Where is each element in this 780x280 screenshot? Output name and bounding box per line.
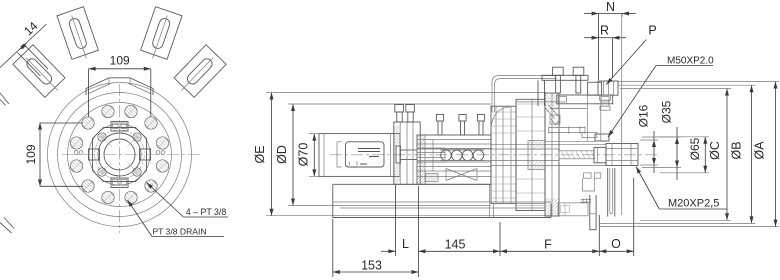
svg-text:ØC: ØC: [708, 141, 722, 160]
svg-text:Ø65: Ø65: [688, 137, 702, 160]
svg-text:O: O: [611, 237, 621, 251]
svg-text:F: F: [544, 238, 552, 252]
svg-text:Ø16: Ø16: [637, 104, 651, 127]
svg-text:M50XP2.0: M50XP2.0: [667, 56, 714, 67]
svg-text:4 – PT 3/8: 4 – PT 3/8: [186, 207, 227, 217]
svg-text:145: 145: [445, 238, 466, 252]
svg-text:PT 3/8 DRAIN: PT 3/8 DRAIN: [152, 226, 206, 236]
svg-text:109: 109: [110, 54, 130, 68]
svg-text:14: 14: [21, 19, 41, 39]
svg-text:P: P: [648, 24, 656, 38]
svg-text:109: 109: [24, 144, 38, 164]
svg-text:R: R: [600, 24, 609, 38]
svg-text:153: 153: [361, 259, 382, 273]
svg-text:ØB: ØB: [730, 141, 744, 159]
svg-text:ØD: ØD: [275, 145, 289, 164]
svg-text:L: L: [402, 237, 409, 251]
svg-text:M20XP2,5: M20XP2,5: [668, 198, 719, 210]
svg-text:ØE: ØE: [253, 145, 267, 163]
svg-text:Ø35: Ø35: [660, 100, 674, 123]
svg-text:ØA: ØA: [753, 141, 767, 160]
svg-text:Ø70: Ø70: [297, 143, 311, 167]
svg-text:N: N: [606, 0, 615, 14]
